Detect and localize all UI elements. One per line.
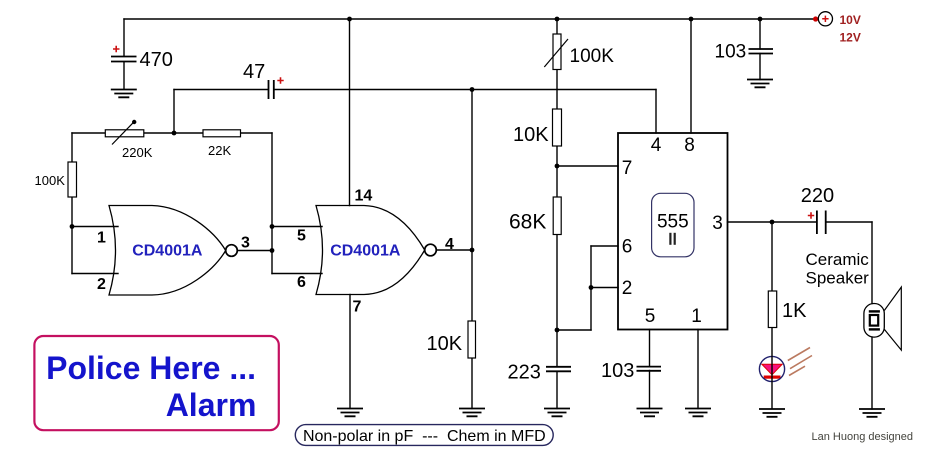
note box non-polar <box>295 425 553 446</box>
speaker SP1 <box>864 287 901 350</box>
wire speaker to ground <box>871 337 873 409</box>
nor-gate U2 CD4001A <box>316 206 436 295</box>
polarity + (47) <box>277 77 283 83</box>
svg-text:22K: 22K <box>208 143 231 158</box>
svg-text:555: 555 <box>657 211 689 232</box>
wire pin14 drop from rail <box>349 19 351 206</box>
wire 470 cap to ground <box>123 62 125 89</box>
wire 1K riser <box>771 222 773 291</box>
svg-text:5: 5 <box>297 228 306 245</box>
wire pin 3 line left of 220 cap <box>728 221 817 223</box>
wire gate1 output <box>238 250 272 252</box>
wire pin4 drop into 555 <box>655 90 657 134</box>
wire speaker drop <box>871 222 873 304</box>
wire pin 7 of 555 <box>557 165 618 167</box>
wire 470 cap riser <box>123 19 125 56</box>
wire pin 2 of 555 <box>591 287 618 289</box>
wire 10K mid to ground <box>471 358 473 409</box>
ground (LED) <box>759 409 785 417</box>
svg-text:10K: 10K <box>513 124 549 146</box>
capacitor 470 electrolytic <box>111 57 137 62</box>
resistor 68K <box>553 197 561 235</box>
wire 100K pot to 10K <box>556 70 558 110</box>
svg-text:3: 3 <box>241 235 250 252</box>
wire pin4 line right segment <box>275 89 657 91</box>
svg-text:6: 6 <box>622 237 633 258</box>
wire 68K to lower node <box>556 235 558 331</box>
wire left loop horizontal <box>72 132 272 134</box>
svg-text:1: 1 <box>691 306 702 327</box>
svg-text:12V: 12V <box>840 30 861 44</box>
wire gate2 pin 7 drop <box>349 295 351 409</box>
svg-text:7: 7 <box>622 158 633 179</box>
svg-text:Ceramic: Ceramic <box>806 250 870 269</box>
wire lower node right <box>557 329 591 331</box>
potentiometer 100K top <box>544 34 568 70</box>
ground (speaker) <box>859 409 885 417</box>
wire pin 6 of 555 <box>591 245 618 247</box>
ground (103 cap bottom) <box>637 409 663 417</box>
resistor 22K <box>203 130 241 137</box>
op-amp U3 555 timer box <box>618 133 728 330</box>
wire gate2 output vertical <box>471 90 473 322</box>
LED D1 <box>759 356 784 381</box>
node pin3-1K branch <box>770 220 775 225</box>
node 220K-22K-47cap <box>172 131 177 136</box>
svg-text:10V: 10V <box>840 13 861 27</box>
svg-text:4: 4 <box>651 135 662 156</box>
node gate1 output <box>270 248 275 253</box>
potentiometer 220K <box>105 120 144 145</box>
wire 555 pin 1 drop <box>697 330 699 409</box>
capacitor 47 <box>269 80 274 99</box>
wire 223 cap to ground <box>556 372 558 409</box>
svg-text:2: 2 <box>97 276 106 293</box>
svg-text:2: 2 <box>622 278 633 299</box>
svg-text:1: 1 <box>97 230 106 247</box>
node rail-pin14 <box>347 17 352 22</box>
polarity + (220) <box>808 212 814 218</box>
ground (103 cap top right) <box>747 80 773 88</box>
svg-text:100K: 100K <box>570 46 615 67</box>
wire pin 3 line right of 220 cap <box>826 221 872 223</box>
node pin2 branch <box>589 285 594 290</box>
svg-text:10K: 10K <box>427 333 463 355</box>
svg-text:Speaker: Speaker <box>806 269 870 288</box>
wire rail to 100K pot <box>556 19 558 34</box>
wire lower node to 223 cap <box>556 330 558 367</box>
wire 10K to node pin7 <box>556 146 558 197</box>
wire top power rail <box>124 18 815 20</box>
capacitor 103 bottom <box>637 367 662 371</box>
wire pin4 line left segment <box>174 89 268 91</box>
svg-text:14: 14 <box>355 187 373 204</box>
svg-text:7: 7 <box>353 298 362 315</box>
wire 103 cap riser top right <box>759 19 761 49</box>
svg-text:68K: 68K <box>509 211 546 234</box>
wire 555 pin 5 drop <box>649 330 651 367</box>
wire 22K feedback vertical <box>271 133 273 274</box>
wire vertical pins 6-2 tie <box>590 246 592 330</box>
ground (555 pin1) <box>685 409 711 417</box>
svg-text:CD4001A: CD4001A <box>132 243 203 260</box>
svg-text:6: 6 <box>297 274 306 291</box>
wire gate2 output <box>437 249 472 251</box>
svg-text:Alarm: Alarm <box>166 387 257 423</box>
svg-text:Police Here ...: Police Here ... <box>46 350 256 386</box>
svg-text:100K: 100K <box>35 173 66 188</box>
wire 47 cap riser <box>173 90 175 134</box>
nor-gate U1 CD4001A <box>109 206 237 296</box>
svg-text:Lan Huong designed: Lan Huong designed <box>812 431 914 443</box>
capacitor 103 top right <box>749 49 774 54</box>
svg-text:4: 4 <box>445 236 454 253</box>
node pin5 tie <box>270 224 275 229</box>
LED rays <box>788 348 812 376</box>
node rail-100K pot <box>555 17 560 22</box>
wire gate2 pin 5 <box>272 226 322 228</box>
title box Police Here Alarm <box>34 336 278 430</box>
svg-text:470: 470 <box>140 49 173 71</box>
node 68K-223-pin2 <box>555 328 560 333</box>
wire gate2 pin 6 <box>272 273 322 275</box>
svg-text:220K: 220K <box>122 145 153 160</box>
wire pin8 drop from rail <box>690 19 692 133</box>
wire 103 bottom cap to ground <box>649 371 651 409</box>
resistor 1K <box>768 291 776 328</box>
node pin4 line <box>470 87 475 92</box>
ground (470 cap) <box>111 90 137 98</box>
wire left vertical <box>71 133 73 274</box>
wire gate1 pin 2 <box>72 273 118 275</box>
svg-text:47: 47 <box>243 61 265 83</box>
resistor 100K left <box>68 162 77 197</box>
svg-text:1K: 1K <box>782 300 807 322</box>
svg-text:Non-polar in pF --- Chem in: Non-polar in pF --- Chem in MFD <box>303 428 546 445</box>
node gate2 output <box>470 248 475 253</box>
svg-text:CD4001A: CD4001A <box>330 243 401 260</box>
label II <box>669 233 676 245</box>
555 inner rounded label box <box>652 193 694 256</box>
svg-text:103: 103 <box>601 360 634 382</box>
svg-text:103: 103 <box>715 42 747 63</box>
wire 103 cap to ground top right <box>759 54 761 80</box>
resistor 10K top <box>553 109 562 146</box>
ground (gate2 pin7) <box>337 409 363 417</box>
polarity + (470) <box>113 46 120 52</box>
LED wire through <box>771 328 773 410</box>
capacitor 223 <box>546 367 571 372</box>
wire gate1 pin 1 <box>72 226 118 228</box>
node rail-103 cap <box>758 17 763 22</box>
ground (223 cap) <box>544 409 570 417</box>
svg-text:5: 5 <box>645 306 656 327</box>
node 10K-68K-pin7 <box>555 164 560 169</box>
power source + terminal <box>813 12 833 26</box>
node rail-pin8 <box>689 17 694 22</box>
svg-text:3: 3 <box>712 213 723 234</box>
ground (10K mid) <box>459 409 485 417</box>
resistor 10K mid <box>468 321 476 358</box>
svg-text:223: 223 <box>508 362 541 384</box>
node gate1 pin1 branch <box>70 224 75 229</box>
svg-text:8: 8 <box>684 135 695 156</box>
capacitor 220 <box>817 211 826 235</box>
svg-text:220: 220 <box>801 185 834 207</box>
